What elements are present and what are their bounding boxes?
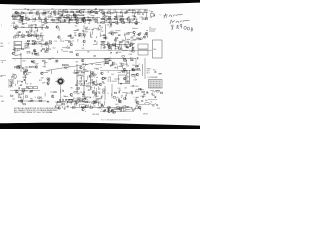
resistor R136 — [77, 71, 80, 74]
capacitor C77 — [47, 83, 49, 85]
wire — [124, 37, 126, 41]
svg-text:S1 FUNC: S1 FUNC — [8, 80, 14, 82]
resistor R168 — [117, 107, 120, 109]
diode D1 — [17, 14, 18, 15]
wire — [90, 32, 92, 37]
capacitor C54 — [124, 44, 126, 46]
resistor R145 — [29, 91, 32, 94]
wire — [34, 17, 36, 20]
capacitor C87 — [154, 96, 156, 98]
wire — [115, 108, 117, 111]
capacitor C94 — [84, 97, 86, 99]
capacitor C55 — [126, 46, 128, 48]
svg-text:C34: C34 — [25, 67, 28, 69]
transistor Q6 — [90, 10, 93, 13]
resistor R164 — [72, 107, 75, 109]
capacitor C92 — [95, 93, 97, 95]
wire — [87, 104, 89, 107]
wire — [86, 64, 88, 66]
wire — [132, 45, 134, 49]
wire — [89, 19, 91, 24]
wire — [60, 20, 62, 23]
svg-text:1K: 1K — [69, 100, 71, 102]
svg-text:2SC: 2SC — [52, 58, 55, 60]
resistor R143 — [25, 96, 28, 97]
wire — [96, 98, 101, 100]
transistor Q7 — [15, 11, 18, 14]
svg-text:33K: 33K — [18, 32, 21, 34]
transistor Q1 — [36, 12, 39, 15]
transistor Q51 — [92, 73, 95, 76]
wire — [36, 36, 38, 39]
wire — [73, 8, 77, 10]
svg-text:470: 470 — [82, 20, 85, 22]
wire — [120, 45, 122, 49]
resistor R95 — [42, 49, 45, 50]
resistor R13 — [67, 17, 70, 19]
capacitor C108 — [99, 107, 101, 109]
wire — [21, 102, 23, 104]
capacitor C2 — [25, 16, 27, 18]
wire — [83, 82, 85, 84]
resistor R131 — [47, 78, 50, 79]
svg-text:680: 680 — [25, 91, 28, 93]
resistor R16 — [144, 11, 147, 14]
capacitor C80 — [81, 83, 83, 85]
wire — [149, 28, 156, 30]
wire — [134, 75, 136, 79]
inductor L7 — [26, 42, 30, 45]
wire — [101, 95, 103, 97]
transistor Q18 — [27, 34, 30, 37]
wire — [80, 85, 86, 87]
wire — [13, 27, 46, 29]
wire — [42, 36, 44, 40]
IF transformer T5 — [119, 75, 126, 84]
wire — [69, 98, 75, 100]
capacitor C8 — [83, 17, 85, 19]
transistor Q44 — [13, 75, 17, 79]
resistor R161 — [73, 100, 76, 101]
capacitor C41 — [128, 22, 130, 24]
capacitor C88 — [154, 71, 156, 73]
transistor Q68 — [119, 100, 122, 103]
wire — [18, 84, 20, 87]
wire — [95, 12, 97, 14]
resistor R82 — [25, 46, 28, 47]
resistor R119 — [16, 67, 19, 70]
resistor R178 — [136, 107, 139, 108]
svg-text:473: 473 — [122, 41, 125, 43]
resistor R133 — [87, 86, 90, 87]
resistor R147 — [54, 92, 57, 93]
resistor R118 — [24, 70, 27, 73]
svg-text:220: 220 — [12, 74, 15, 76]
wire — [17, 31, 19, 34]
wire — [112, 62, 114, 66]
resistor R135 — [91, 72, 94, 73]
wire — [96, 36, 98, 38]
wire — [116, 19, 118, 23]
svg-text:VR1: VR1 — [144, 34, 147, 36]
wire — [86, 28, 91, 30]
svg-text:10K: 10K — [16, 37, 19, 39]
capacitor C91 — [81, 93, 83, 95]
wire — [120, 110, 122, 112]
capacitor C76 — [10, 84, 12, 86]
resistor R158 — [136, 96, 139, 99]
wire — [142, 64, 144, 76]
bus bar rung — [127, 76, 129, 78]
wire — [93, 27, 98, 29]
resistor R6 — [65, 11, 68, 13]
wire — [10, 24, 12, 27]
diode D6 — [151, 11, 152, 12]
diode D24 — [113, 62, 114, 63]
svg-text:10K: 10K — [41, 40, 44, 42]
transistor Q14 — [14, 26, 17, 29]
wire — [134, 99, 136, 102]
svg-text:470: 470 — [14, 90, 17, 92]
capacitor C14 — [134, 15, 136, 17]
wire — [63, 50, 68, 52]
wire — [20, 85, 22, 86]
wire — [20, 55, 22, 72]
wire — [139, 33, 141, 35]
wire — [104, 101, 106, 106]
svg-text:1.5K: 1.5K — [36, 11, 39, 13]
wire — [83, 44, 85, 46]
wire — [14, 12, 48, 14]
svg-text:4.7K: 4.7K — [100, 27, 103, 29]
resistor R125 — [137, 68, 140, 69]
wire — [90, 105, 92, 108]
svg-text:C208: C208 — [129, 51, 133, 53]
capacitor C22 — [22, 23, 24, 25]
resistor R166 — [90, 107, 93, 109]
svg-text:100P: 100P — [47, 11, 50, 13]
transistor Q25 — [133, 31, 136, 34]
diode D10 — [35, 24, 36, 25]
wire — [124, 111, 126, 113]
wire — [115, 99, 117, 101]
resistor R176 — [101, 105, 104, 106]
resistor R73 — [115, 37, 118, 38]
wire — [122, 65, 124, 69]
resistor R36 — [89, 20, 92, 21]
wire — [18, 13, 20, 16]
wire — [83, 25, 85, 29]
resistor R43 — [119, 16, 122, 19]
wire — [17, 93, 19, 98]
wire — [70, 107, 132, 109]
resistor R58 — [115, 22, 118, 24]
wire — [37, 31, 39, 33]
transistor Q64 — [108, 110, 111, 113]
wire — [87, 23, 89, 24]
svg-text:T6: T6 — [151, 102, 153, 104]
diode D28 — [97, 83, 98, 84]
resistor R15 — [108, 12, 111, 14]
transistor Q38 — [33, 61, 36, 64]
svg-text:C: C — [61, 98, 62, 100]
wire — [121, 97, 123, 98]
wire — [22, 96, 24, 100]
bus bar rung — [127, 72, 129, 74]
capacitor C15 — [146, 16, 148, 18]
wire — [124, 70, 128, 72]
svg-text:0.01: 0.01 — [78, 75, 81, 77]
transistor Q34 — [12, 52, 15, 55]
wire — [31, 24, 37, 26]
capacitor C120 — [21, 100, 23, 102]
svg-text:0.047: 0.047 — [116, 16, 120, 18]
wire — [104, 86, 106, 100]
transistor Q50 — [92, 82, 95, 85]
capacitor C65 — [30, 61, 32, 63]
wire — [140, 95, 145, 97]
wire — [135, 19, 137, 24]
wire — [147, 35, 149, 38]
wire — [123, 19, 125, 23]
svg-text:10K: 10K — [150, 17, 153, 19]
wire — [56, 19, 58, 21]
capacitor C23 — [68, 22, 70, 24]
svg-text:470: 470 — [87, 71, 90, 73]
capacitor C82 — [120, 82, 122, 84]
handwritten note Kardon — [170, 20, 189, 24]
svg-text:C208: C208 — [22, 61, 26, 63]
resistor R29 — [52, 21, 55, 24]
svg-text:473: 473 — [109, 26, 112, 28]
wire — [43, 11, 45, 15]
svg-text:C: C — [127, 107, 128, 109]
wire — [81, 77, 83, 80]
wire — [50, 11, 52, 15]
transistor Q29 — [83, 40, 86, 43]
resistor R182 — [38, 97, 41, 98]
resistor R163 — [39, 100, 42, 102]
resistor R124 — [122, 71, 125, 72]
wire — [61, 102, 63, 106]
transistor Q39 — [81, 59, 84, 62]
wire — [91, 15, 95, 17]
resistor R45 — [134, 22, 137, 25]
stray pen mark — [159, 13, 162, 16]
resistor R88 — [109, 49, 112, 50]
resistor R63 — [34, 35, 37, 37]
svg-text:56K: 56K — [135, 102, 138, 104]
resistor R110 — [123, 58, 126, 59]
diode D19 — [116, 52, 117, 53]
capacitor C89 — [18, 87, 20, 89]
wire — [34, 97, 36, 98]
resistor R12 — [58, 17, 61, 19]
wire — [44, 60, 46, 68]
svg-text:33K: 33K — [119, 63, 122, 65]
capacitor C62 — [44, 50, 46, 52]
wire — [81, 41, 83, 43]
transistor Q36 — [33, 49, 36, 52]
svg-text:C208: C208 — [69, 36, 73, 38]
wire — [76, 70, 81, 72]
svg-text:220: 220 — [98, 91, 101, 93]
capacitor C96 — [118, 91, 120, 93]
diode D20 — [110, 52, 111, 53]
resistor R19 — [81, 14, 84, 17]
capacitor C69 — [56, 60, 58, 62]
wire — [23, 89, 25, 92]
svg-text:4.7K: 4.7K — [108, 10, 111, 12]
wire — [64, 15, 84, 17]
transistor Q26 — [45, 43, 48, 46]
capacitor C12 — [125, 12, 127, 14]
svg-text:1.5K: 1.5K — [46, 52, 49, 54]
wire — [115, 30, 120, 32]
wire — [159, 73, 162, 75]
wire — [141, 18, 143, 20]
diode D3 — [129, 10, 130, 11]
wire — [45, 42, 50, 44]
wire — [83, 31, 88, 33]
wire — [42, 66, 45, 68]
svg-text:R12: R12 — [26, 74, 29, 76]
wire — [59, 14, 61, 17]
wire — [103, 33, 105, 35]
wire — [9, 84, 11, 87]
wire — [46, 47, 48, 49]
transistor Q2 — [53, 11, 56, 14]
wire — [38, 38, 40, 40]
resistor R107 — [66, 65, 69, 66]
svg-text:473: 473 — [16, 16, 19, 18]
inductor L3 — [138, 11, 142, 14]
svg-text:T201: T201 — [112, 113, 115, 115]
svg-text:680: 680 — [30, 25, 33, 27]
resistor R165 — [81, 106, 84, 109]
svg-text:WITH VTVM, LINE AT 117 V.A.C.: WITH VTVM, LINE AT 117 V.A.C. NO SIGNAL. — [14, 111, 54, 114]
capacitor C103 — [65, 98, 67, 100]
diode D2 — [125, 13, 126, 14]
wire — [140, 23, 142, 26]
wire — [148, 99, 157, 101]
wire — [64, 17, 70, 19]
wire — [55, 23, 57, 25]
svg-text:100: 100 — [91, 64, 94, 66]
wire — [136, 89, 140, 91]
resistor R146 — [11, 95, 14, 96]
svg-text:C208: C208 — [111, 65, 115, 67]
wire — [91, 31, 93, 35]
svg-text:220: 220 — [120, 110, 123, 112]
svg-text:470: 470 — [45, 17, 48, 19]
connector pin row — [150, 82, 152, 85]
svg-text:R105: R105 — [36, 15, 40, 17]
switch contact — [59, 77, 61, 78]
svg-text:1K: 1K — [97, 108, 99, 110]
wire — [80, 106, 82, 108]
resistor R150 — [85, 96, 88, 99]
wire — [12, 8, 148, 10]
wire — [112, 80, 118, 82]
wire — [105, 60, 107, 64]
resistor R74 — [140, 38, 143, 39]
wire — [109, 45, 111, 49]
resistor R151 — [82, 95, 85, 98]
wire — [19, 67, 21, 70]
transistor Q13 — [120, 19, 123, 22]
wire — [71, 95, 73, 97]
svg-text:470: 470 — [108, 77, 111, 79]
wire — [70, 102, 72, 105]
capacitor C78 — [85, 80, 87, 82]
wire — [74, 70, 76, 72]
resistor R117 — [17, 66, 20, 67]
wire — [83, 33, 85, 35]
svg-text:R105: R105 — [76, 89, 80, 91]
svg-text:T2: T2 — [14, 47, 16, 49]
wire — [110, 19, 112, 23]
svg-text:100: 100 — [61, 50, 64, 52]
diode D31 — [90, 97, 91, 98]
wire — [94, 67, 98, 69]
wire — [125, 108, 131, 110]
wire — [22, 20, 24, 24]
transistor Q12 — [127, 18, 130, 21]
wire — [53, 97, 55, 100]
svg-text:56K: 56K — [80, 13, 83, 15]
transistor Q45 — [23, 72, 27, 76]
wire — [77, 91, 79, 94]
wire — [125, 61, 127, 65]
capacitor C50 — [93, 40, 95, 42]
switch contact — [57, 81, 58, 83]
wire — [125, 93, 127, 96]
wire — [105, 62, 110, 64]
svg-text:22K: 22K — [47, 70, 50, 72]
wire — [131, 60, 134, 62]
capacitor C25 — [63, 19, 65, 21]
wire — [37, 27, 39, 31]
capacitor C111 — [100, 96, 102, 98]
svg-text:VR1: VR1 — [55, 61, 58, 63]
wire — [117, 30, 119, 32]
wire — [34, 52, 36, 55]
wire — [45, 62, 47, 64]
svg-text:C34: C34 — [119, 42, 122, 44]
resistor R26 — [38, 18, 41, 21]
transistor Q71 — [82, 108, 85, 111]
wire — [62, 106, 64, 108]
capacitor C59 — [129, 45, 131, 47]
switch contact — [62, 82, 65, 85]
resistor R70 — [104, 37, 107, 38]
diode D13 — [75, 35, 76, 36]
wire — [97, 11, 99, 14]
switch contact — [58, 77, 61, 80]
svg-text:473: 473 — [18, 81, 21, 83]
top scan bar — [0, 0, 200, 5]
capacitor C106 — [20, 96, 22, 98]
resistor R103 — [17, 66, 20, 67]
wire — [155, 90, 160, 92]
resistor R75 — [127, 38, 130, 41]
capacitor C104 — [68, 98, 70, 100]
capacitor C58 — [127, 42, 129, 44]
svg-text:100P: 100P — [91, 103, 94, 105]
resistor R155 — [123, 98, 126, 99]
wire — [107, 71, 109, 73]
